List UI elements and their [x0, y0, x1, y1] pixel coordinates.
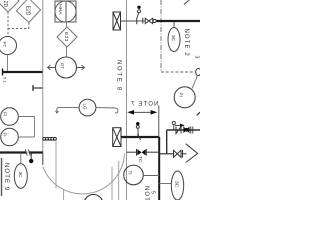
tick after valve	[182, 150, 184, 158]
svg-text:NOTE 8: NOTE 8	[116, 60, 122, 92]
cap tick of stub	[32, 85, 34, 91]
vent circle (open)	[138, 10, 141, 13]
stub wire x159 to E2	[159, 183, 171, 185]
wire U1 to diamond D3	[66, 22, 68, 27]
sample ellipse E1 (3C)	[14, 164, 27, 189]
svg-text:NOTE 7: NOTE 7	[130, 102, 158, 108]
bottom circle cut by edge	[84, 195, 103, 214]
instrument circle C4	[1, 128, 19, 146]
wire between flanges	[137, 20, 145, 22]
logic diamond D3 (E23)	[57, 27, 77, 47]
check valve N shape	[176, 127, 181, 134]
vent ball (solid)	[137, 6, 140, 9]
dashed boundary horizontal y72	[161, 71, 196, 73]
heavy pipe y21 right segment	[156, 20, 200, 22]
open bowtie valve	[174, 150, 182, 157]
control valve X-rect V1 (top)	[113, 12, 121, 30]
line under chain	[43, 139, 56, 141]
flange ticks right	[191, 127, 193, 134]
right arrowhead	[151, 110, 158, 115]
wire y21 from V1 to flange	[121, 20, 137, 22]
chain of small circles (heat trace)	[43, 137, 57, 140]
vertical pipe x166.7	[166, 130, 168, 154]
long vertical line x126.5	[126, 0, 128, 200]
svg-text:FT: FT	[2, 42, 7, 48]
wire C4 right	[18, 136, 34, 138]
stem to heavy line	[137, 128, 139, 137]
filled ball valve with dot	[183, 126, 189, 133]
instrument circle C7 (PI)	[174, 87, 195, 108]
actuator circle on stem	[172, 121, 175, 124]
svg-text:NOTE 9: NOTE 9	[3, 163, 9, 191]
vertical x56 from chain to vessel	[55, 140, 57, 188]
dashed signal wire from D1 bottom down	[7, 12, 9, 37]
sample ellipse E2 (3C) bottom right	[171, 171, 183, 200]
svg-text:LG: LG	[82, 104, 87, 111]
instrument circle C1 (LT)	[0, 37, 17, 55]
svg-text:5: 5	[150, 191, 156, 194]
instrument circle C6 (TI)	[124, 165, 144, 185]
svg-text:E23: E23	[63, 32, 69, 42]
vessel internal vertical x118.7	[118, 161, 120, 200]
instrument circle C2 (PT) with arrows	[56, 57, 77, 78]
shared display square with inscribed circle U1	[55, 1, 76, 22]
stem to ellipse E3	[173, 22, 175, 28]
capped stub line y88	[33, 87, 43, 89]
wire vertical joining C3/C4	[34, 117, 36, 138]
svg-text:3C: 3C	[170, 35, 176, 42]
flange bar 1	[136, 18, 138, 25]
big off-page chevron	[186, 144, 198, 163]
sample ellipse E3	[168, 28, 180, 52]
cap tick at left end of header	[2, 69, 4, 76]
vessel internal vertical x63.6	[63, 189, 65, 200]
left edge line	[1, 158, 3, 196]
pipe y130 top-right	[167, 129, 200, 131]
dashed signal wire from D2 bottom down	[28, 23, 30, 29]
svg-text:2D: 2D	[2, 1, 8, 8]
corner into vessel: vertical from header	[42, 153, 44, 166]
instrument circles C3/C4 left column	[1, 108, 19, 126]
svg-text:3C: 3C	[174, 181, 180, 188]
slanted stem	[137, 13, 139, 18]
logic diamond D1 (top-left, cut by edge)	[0, 0, 19, 12]
instrument circle C5 (LG)	[79, 99, 96, 116]
open circle terminator at left of pipe	[153, 19, 156, 22]
svg-text:PI: PI	[179, 93, 184, 97]
drain stem with ball y161	[30, 153, 32, 159]
svg-text:HHA: HHA	[57, 4, 63, 15]
wire y152.2 from x126.5 to valve	[127, 151, 137, 153]
flow arrow above pipe	[175, 124, 181, 126]
double-headed arrow wire y112.3	[129, 111, 155, 113]
svg-text:3: 3	[194, 56, 200, 59]
dashed signal wire horizontal joining D1/D2	[8, 28, 29, 30]
stub to chevron	[183, 153, 187, 155]
branch pipe y153.8	[159, 153, 173, 155]
svg-text:TI: TI	[128, 171, 133, 175]
svg-text:NOTE 2: NOTE 2	[183, 29, 189, 57]
process header pipe y152.5	[0, 151, 43, 153]
dash-dot boundary vertical x161	[160, 0, 162, 72]
vessel big arc	[43, 154, 125, 194]
svg-text:FI: FI	[2, 112, 7, 116]
svg-text:TC: TC	[137, 156, 143, 163]
flange bar right of bowtie	[145, 149, 147, 156]
svg-text:PT: PT	[60, 63, 65, 69]
vessel internal vertical x112	[111, 167, 113, 200]
vent ball (solid, middle)	[136, 122, 139, 125]
vent circle (open, middle)	[136, 125, 139, 128]
stem ellipse E1 to header	[20, 153, 22, 164]
flange bar left of bowtie	[136, 149, 138, 156]
long vertical line x42	[42, 0, 44, 164]
right wire from C5 with hook	[96, 108, 118, 113]
svg-text:NOTE: NOTE	[143, 186, 149, 200]
left wire from C5 with hook	[55, 108, 79, 114]
filled bowtie valve y152.2	[137, 149, 145, 155]
wire C1 bottom to header	[7, 55, 9, 73]
logic diamond D2	[16, 0, 40, 23]
wire D3 bottom to circle C2	[66, 47, 68, 57]
wire C6 to x159	[143, 175, 159, 177]
svg-text:FI: FI	[2, 133, 7, 137]
heavy pipe vertical x159 down	[158, 137, 160, 200]
thin vertical x158.6 (from NOTE7 down)	[158, 106, 160, 138]
process header pipe y72	[3, 71, 43, 73]
wire C3 right	[18, 116, 34, 118]
diagonal wire C7 to small ellipse	[192, 76, 198, 89]
pipe break marks	[26, 150, 30, 156]
left arrow from C2	[48, 65, 56, 70]
wire bowtie to x159	[146, 151, 159, 153]
slanted tick crossing heavy line	[137, 134, 140, 140]
left arrowhead	[127, 110, 134, 115]
open bowtie valve y21	[145, 18, 153, 23]
small diagonal mark at right edge	[197, 112, 200, 115]
svg-text:E2D: E2D	[25, 6, 31, 16]
small ellipse at end of dashed line	[196, 68, 201, 75]
control valve X-rect V2 (middle)	[113, 128, 121, 147]
right arrow from C2	[77, 65, 85, 70]
flange bar 2	[142, 18, 144, 24]
svg-text:3C: 3C	[17, 172, 23, 179]
small diagonal mark top right	[184, 0, 189, 4]
heavy pipe y137	[121, 136, 159, 138]
svg-text:5 1: 5 1	[2, 77, 7, 83]
stem down to pipe	[173, 125, 175, 130]
